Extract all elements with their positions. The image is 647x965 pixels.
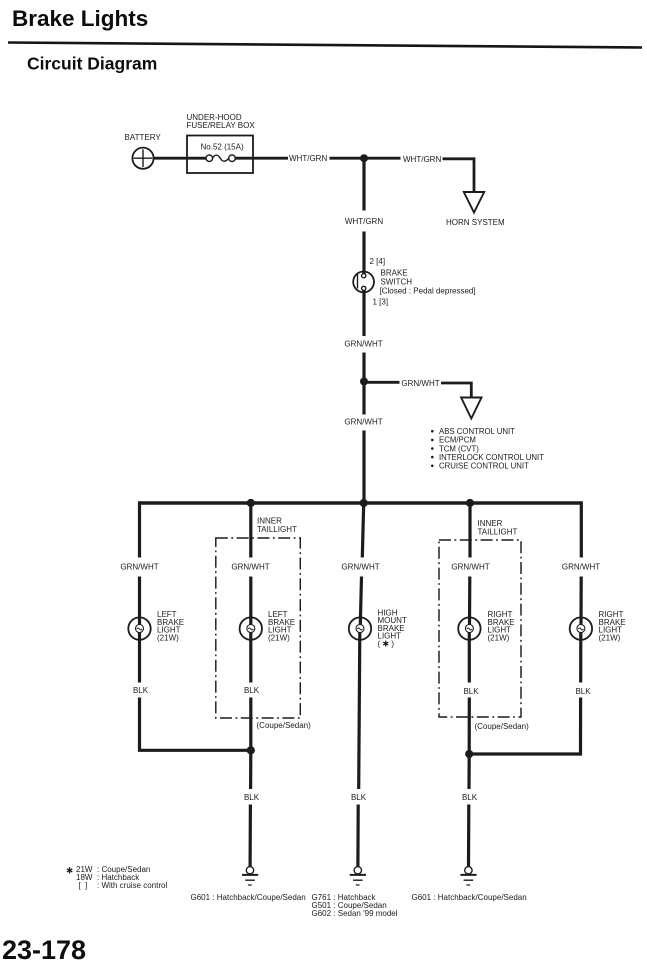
wire — [249, 750, 252, 789]
control units list — [431, 427, 544, 471]
battery — [125, 133, 162, 169]
svg-text:BLK: BLK — [133, 686, 149, 695]
svg-text:GRN/WHT: GRN/WHT — [401, 379, 439, 388]
svg-text:GRN/WHT: GRN/WHT — [120, 562, 158, 571]
svg-text:CRUISE CONTROL UNIT: CRUISE CONTROL UNIT — [439, 462, 529, 471]
svg-text:[Closed : Pedal depressed]: [Closed : Pedal depressed] — [380, 286, 476, 295]
node E junction — [466, 499, 474, 507]
wire — [359, 632, 360, 789]
svg-text:GRN/WHT: GRN/WHT — [344, 417, 382, 426]
svg-text:(Coupe/Sedan): (Coupe/Sedan) — [257, 721, 312, 730]
wire — [467, 754, 470, 789]
wire — [579, 577, 582, 626]
svg-text:Circuit Diagram: Circuit Diagram — [27, 54, 157, 74]
svg-text:BLK: BLK — [462, 793, 478, 802]
svg-text:WHT/GRN: WHT/GRN — [403, 155, 441, 164]
svg-text:HORN SYSTEM: HORN SYSTEM — [446, 218, 505, 227]
node D junction — [360, 499, 368, 507]
fuse element — [206, 155, 213, 162]
svg-text:ABS CONTROL UNIT: ABS CONTROL UNIT — [439, 427, 515, 436]
wire — [330, 157, 401, 160]
left inner taillight box — [216, 517, 311, 731]
bulb high mount brake light — [349, 609, 407, 649]
bus wire — [140, 501, 582, 505]
svg-text:23-178: 23-178 — [2, 935, 86, 965]
control units arrow — [461, 398, 481, 419]
wire left outer branch — [138, 501, 141, 557]
wire brake switch down — [362, 290, 365, 336]
wire — [362, 353, 365, 384]
svg-text:BLK: BLK — [575, 687, 591, 696]
svg-text:G601 : Hatchback/Coupe/Sedan: G601 : Hatchback/Coupe/Sedan — [191, 893, 306, 902]
ground G601 right — [412, 867, 527, 902]
wire right outer branch — [580, 501, 583, 557]
wire — [362, 232, 365, 275]
wire branch to control units — [364, 381, 400, 384]
bulb left brake light — [128, 610, 184, 643]
svg-text:SWITCH: SWITCH — [381, 277, 413, 286]
svg-text:2 [4]: 2 [4] — [370, 257, 386, 266]
node G junction — [465, 750, 473, 758]
wire — [362, 431, 365, 504]
wire to node G — [469, 698, 580, 755]
svg-text:GRN/WHT: GRN/WHT — [562, 562, 600, 571]
svg-text:GRN/WHT: GRN/WHT — [451, 562, 489, 571]
fuse No.52 (15A) — [201, 143, 244, 162]
node B junction — [360, 378, 368, 386]
wire junction B down to bus — [362, 382, 365, 415]
node F junction — [247, 746, 255, 754]
svg-text:BLK: BLK — [351, 793, 367, 802]
svg-text:BRAKE: BRAKE — [381, 268, 408, 277]
wire — [468, 577, 471, 626]
svg-text:G601 : Hatchback/Coupe/Sedan: G601 : Hatchback/Coupe/Sedan — [412, 893, 527, 902]
bulb right brake light outer — [570, 610, 626, 643]
wire — [467, 805, 470, 867]
wire — [138, 577, 141, 626]
svg-text:GRN/WHT: GRN/WHT — [341, 562, 379, 571]
wire — [249, 632, 252, 682]
wire — [249, 698, 252, 753]
wire battery to fuse box — [154, 157, 206, 160]
wire right inner branch — [468, 501, 471, 557]
svg-text:WHT/GRN: WHT/GRN — [345, 217, 383, 226]
wire junction A down — [362, 158, 365, 210]
wire — [360, 577, 361, 626]
svg-text:(21W): (21W) — [488, 634, 510, 643]
svg-text:BLK: BLK — [244, 686, 260, 695]
svg-text:(21W): (21W) — [268, 634, 290, 643]
svg-text:INTERLOCK CONTROL UNIT: INTERLOCK CONTROL UNIT — [439, 453, 544, 462]
svg-text:FUSE/RELAY BOX: FUSE/RELAY BOX — [187, 121, 256, 130]
svg-text:( ✱ ): ( ✱ ) — [378, 640, 395, 649]
note asterisk legend — [66, 865, 167, 890]
wire — [249, 577, 252, 626]
wire to horn system — [443, 159, 475, 192]
wire fuse to junction A — [235, 157, 288, 160]
svg-text:(21W): (21W) — [157, 634, 179, 643]
svg-text:G602 : Sedan '99 model: G602 : Sedan '99 model — [312, 909, 398, 918]
svg-text:TAILLIGHT: TAILLIGHT — [257, 525, 297, 534]
wire — [441, 383, 471, 398]
battery plus terminal — [134, 157, 153, 159]
right inner taillight box — [439, 519, 529, 731]
ground G761/G501/G602 centre — [312, 867, 398, 918]
svg-text:BATTERY: BATTERY — [125, 133, 162, 142]
svg-text:(21W): (21W) — [599, 634, 621, 643]
wire centre high mount branch — [362, 503, 363, 558]
wire — [579, 632, 582, 682]
node C junction — [247, 499, 255, 507]
svg-text:TAILLIGHT: TAILLIGHT — [478, 527, 518, 536]
svg-text:GRN/WHT: GRN/WHT — [344, 339, 382, 348]
svg-text:[ ]: [ ] — [79, 881, 88, 890]
brake switch — [353, 257, 475, 307]
svg-text:BLK: BLK — [244, 793, 260, 802]
svg-text:1 [3]: 1 [3] — [373, 298, 389, 307]
wire — [468, 698, 471, 756]
svg-text:(Coupe/Sedan): (Coupe/Sedan) — [475, 722, 530, 731]
svg-text:BLK: BLK — [463, 687, 479, 696]
wire left inner branch — [249, 501, 252, 557]
svg-text:GRN/WHT: GRN/WHT — [231, 562, 269, 571]
node A junction — [360, 154, 368, 162]
svg-text:Brake Lights: Brake Lights — [12, 6, 148, 31]
wire to node F — [140, 698, 251, 751]
bulb left brake light inner — [240, 610, 296, 643]
svg-text:✱: ✱ — [66, 866, 73, 876]
svg-text:: With cruise control: : With cruise control — [97, 881, 167, 890]
wire — [468, 632, 471, 682]
bulb right brake light inner — [458, 610, 514, 643]
wire — [356, 805, 360, 867]
svg-text:No.52 (15A): No.52 (15A) — [201, 143, 244, 152]
under-hood fuse/relay box — [187, 113, 256, 173]
ground G601 left — [191, 867, 306, 902]
svg-text:WHT/GRN: WHT/GRN — [289, 154, 327, 163]
wire — [138, 632, 141, 682]
wire — [249, 805, 252, 867]
title rule — [8, 43, 642, 48]
horn system arrow — [446, 192, 505, 227]
